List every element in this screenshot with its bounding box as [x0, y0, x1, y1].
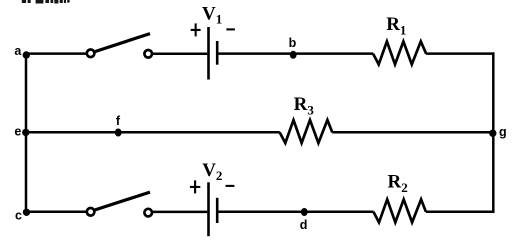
node c junction dot [23, 209, 30, 216]
wire: bottom, battery V2 to resistor R2 (through node d) [218, 211, 373, 214]
battery V2 plus sign [190, 180, 200, 193]
switch S2 right contact circle [144, 209, 152, 217]
svg-text:c: c [15, 209, 22, 223]
svg-text:f: f [116, 114, 121, 128]
battery V2 long (positive) plate [207, 182, 210, 236]
switch S1 left contact circle [87, 50, 95, 58]
switch S1 right contact circle [144, 50, 152, 58]
battery V1 long (positive) plate [207, 27, 210, 80]
svg-text:a: a [14, 44, 22, 58]
node e junction dot [22, 129, 29, 136]
switch S2 left contact circle [87, 208, 95, 216]
battery V1 plus sign [191, 23, 201, 36]
node g junction dot [489, 130, 496, 137]
svg-text:V1: V1 [202, 3, 222, 26]
svg-text:R2: R2 [388, 172, 408, 195]
wire: middle, node e to resistor R3 (through node f) [26, 131, 280, 134]
battery V1 short (negative) plate [216, 41, 219, 65]
svg-text:V2: V2 [202, 160, 222, 183]
svg-text:d: d [300, 218, 308, 232]
resistor R1 zigzag [373, 41, 426, 64]
node f junction dot [115, 129, 122, 137]
resistor R3 zigzag [280, 120, 333, 143]
resistor R2 zigzag [373, 199, 426, 222]
wire: top, switch S1 to battery V1 [153, 52, 207, 55]
svg-text:R3: R3 [294, 94, 315, 117]
wire: top left, node a to switch S1 [26, 52, 86, 55]
battery V2 short (negative) plate [216, 198, 219, 223]
wire: top, resistor R1 to top-right corner [426, 52, 494, 55]
battery V2 minus sign [226, 185, 235, 187]
cropped caption text fragment at top [22, 0, 70, 4]
svg-text:R1: R1 [386, 14, 406, 37]
wire: bottom left, node c to switch S2 [26, 211, 86, 214]
switch S2 lever arm [95, 192, 150, 210]
wire: bottom, resistor R2 to bottom-right corner [426, 211, 494, 214]
wire: bottom, switch S2 to battery V2 [153, 211, 207, 214]
wire: middle, resistor R3 to node g [332, 131, 494, 134]
svg-text:g: g [499, 125, 507, 139]
svg-text:b: b [289, 36, 297, 50]
node a junction dot [23, 51, 30, 58]
switch S1 lever arm [95, 34, 150, 52]
node b junction dot [290, 51, 297, 59]
wire: left vertical (node a to node c, through node e) [25, 53, 28, 213]
wire: top, battery V1 to resistor R1 (through node b) [218, 52, 373, 55]
wire: right vertical (top corner to bottom corner, through node g) [492, 52, 495, 213]
svg-text:e: e [14, 125, 21, 139]
node d junction dot [301, 208, 308, 216]
battery V1 minus sign [226, 28, 235, 30]
